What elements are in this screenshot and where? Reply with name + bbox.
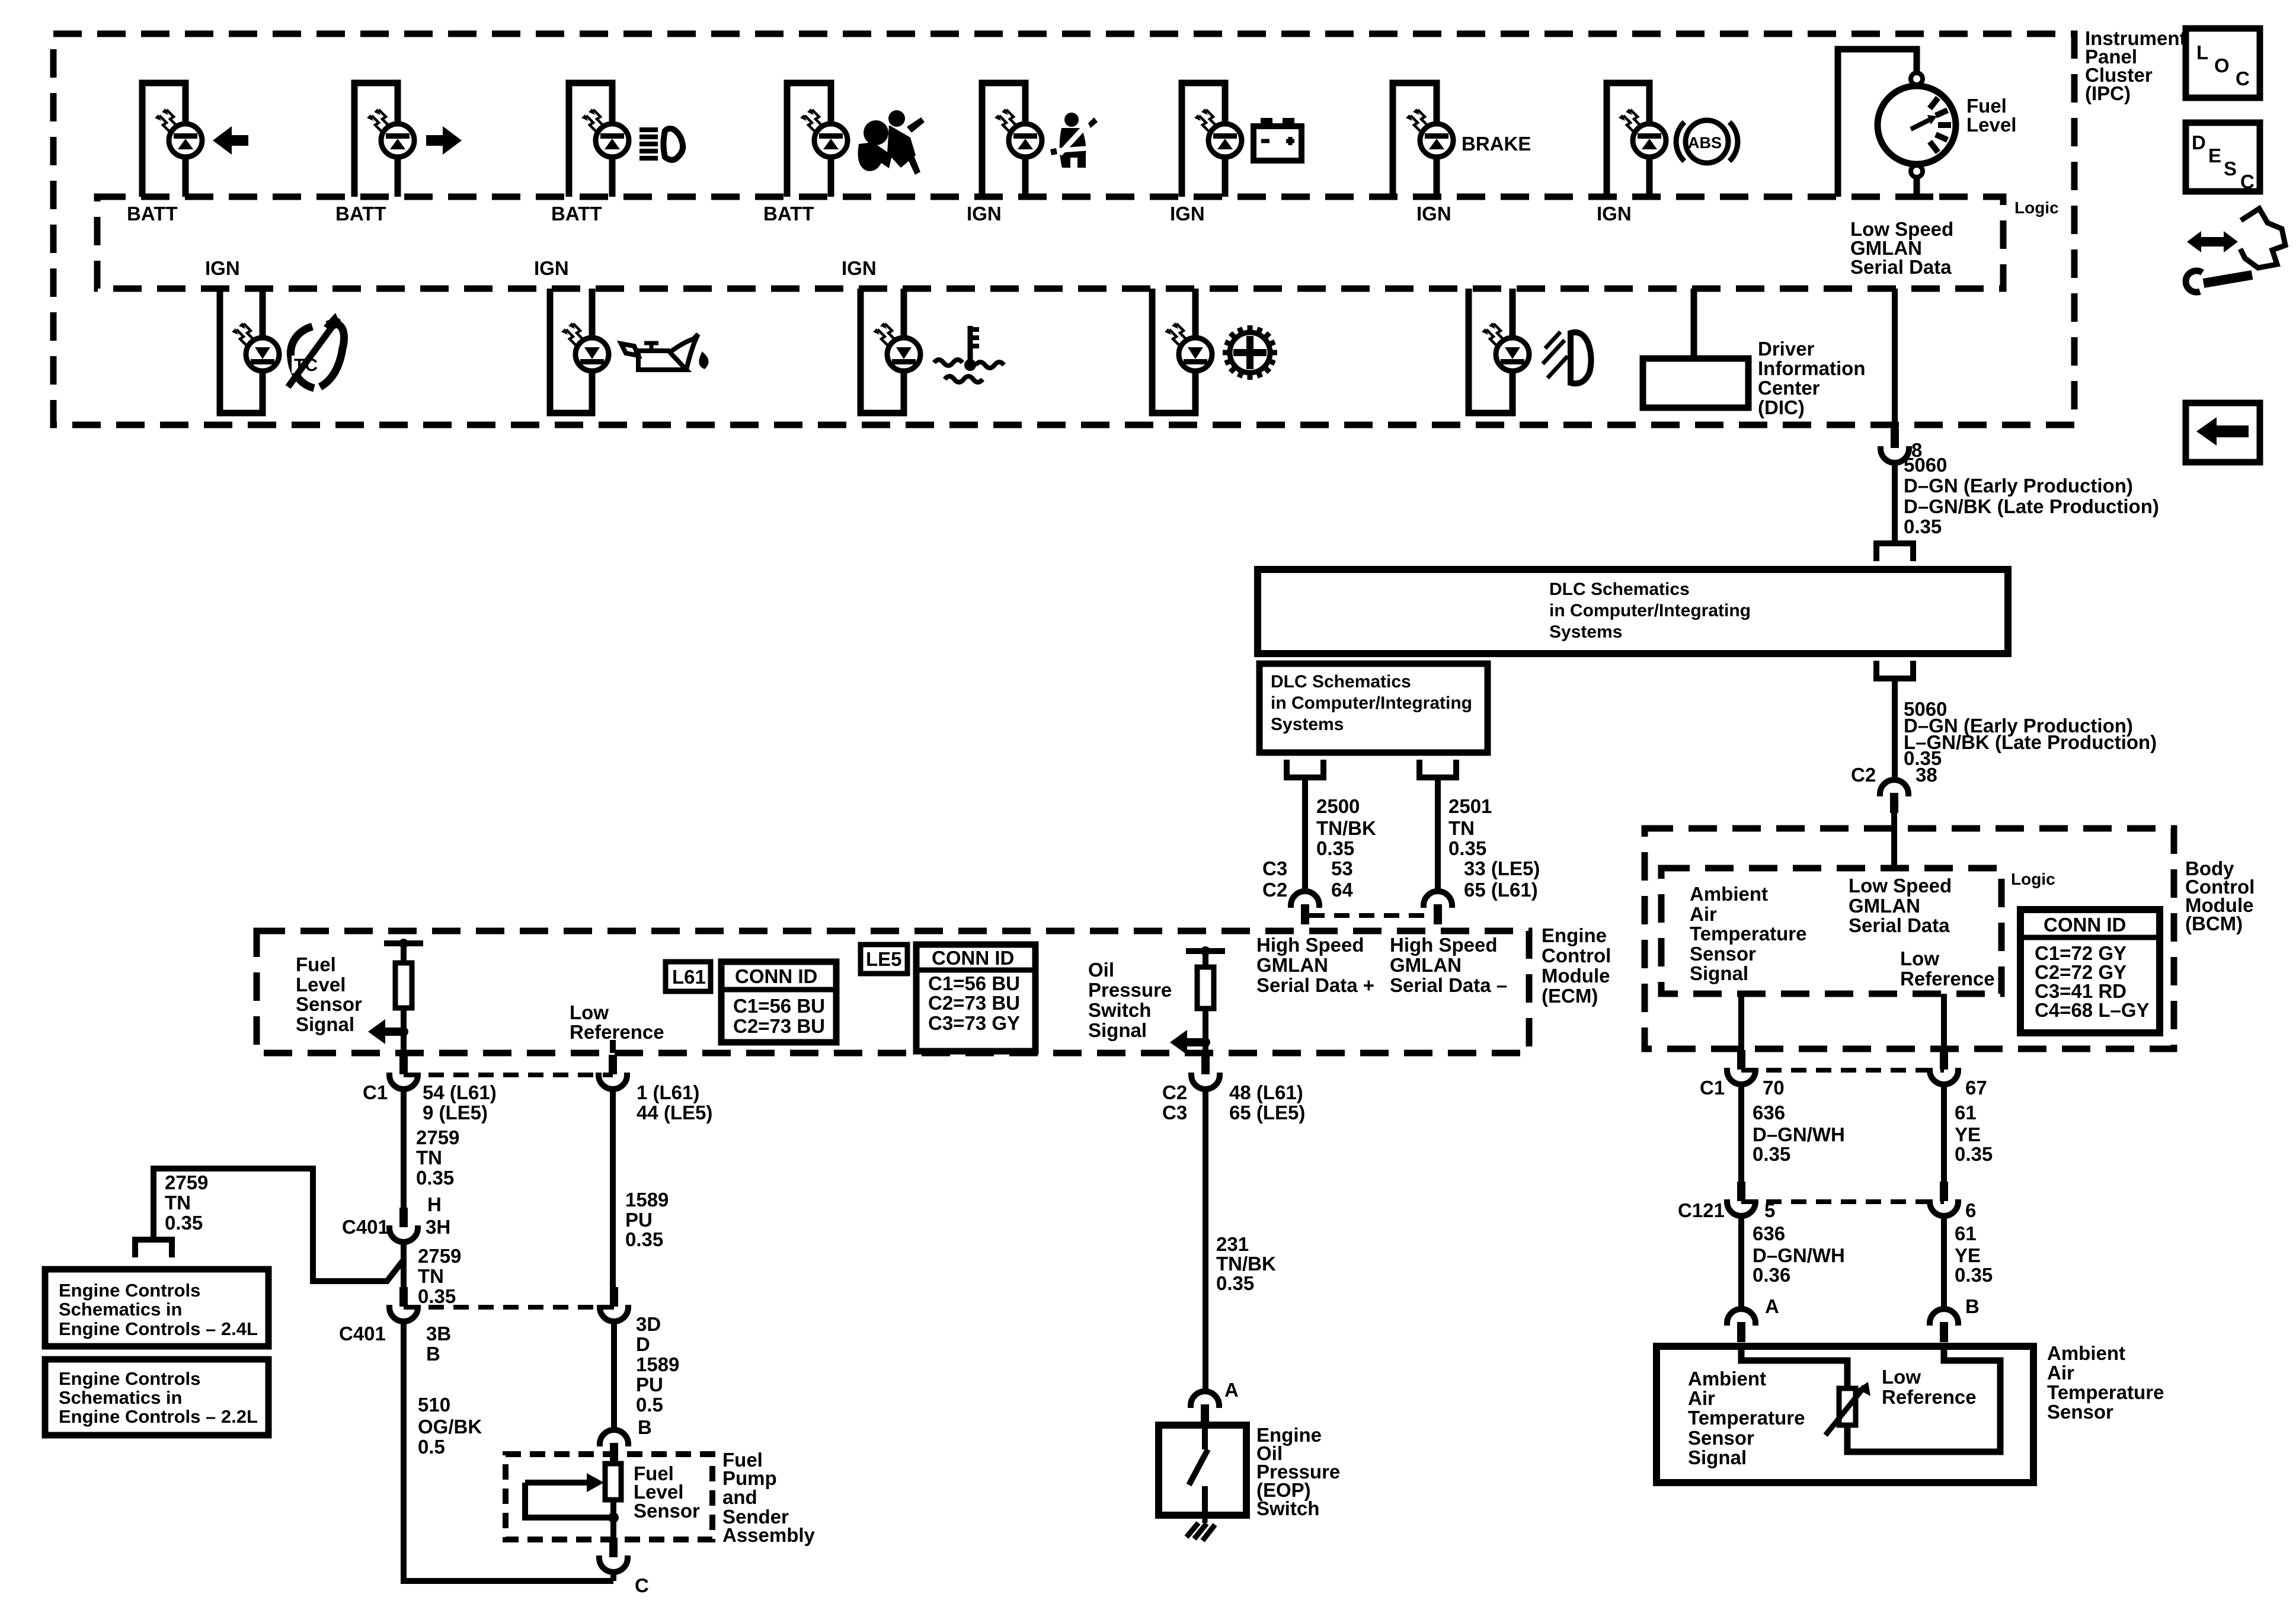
svg-text:C: C [635,1574,649,1596]
svg-text:44 (LE5): 44 (LE5) [637,1102,712,1124]
svg-text:B: B [1965,1295,1980,1317]
svg-text:LE5: LE5 [866,948,902,970]
bracket below DLC box [1876,661,1913,678]
svg-text:(BCM): (BCM) [2185,913,2243,934]
Driver Information Center (DIC) box [1643,359,1748,408]
svg-text:Pressure: Pressure [1088,979,1172,1001]
back arrow icon box [2186,403,2260,462]
svg-text:TN: TN [1448,817,1475,839]
IPC label [2085,27,2186,104]
svg-text:GMLAN: GMLAN [1256,954,1328,976]
svg-text:D–GN/WH: D–GN/WH [1753,1124,1845,1145]
bracket to DLC box [1876,543,1913,561]
svg-text:2759: 2759 [416,1126,459,1148]
svg-text:1 (L61): 1 (L61) [637,1081,699,1103]
wire C to ground run [610,1571,616,1581]
svg-text:IGN: IGN [1597,203,1632,225]
svg-text:Schematics in: Schematics in [59,1387,182,1408]
svg-text:A: A [1224,1379,1239,1401]
svg-text:CONN ID: CONN ID [735,965,817,987]
svg-text:DLC Schematics: DLC Schematics [1549,580,1690,599]
svg-text:0.35: 0.35 [1316,837,1354,859]
svg-text:C2: C2 [1262,879,1287,901]
Engine Oil Pressure (EOP) Switch box [1159,1425,1246,1515]
Fuel Level label [1966,95,2016,136]
svg-text:in Computer/Integrating: in Computer/Integrating [1549,601,1751,620]
svg-text:Serial Data +: Serial Data + [1256,974,1374,996]
svg-text:DLC Schematics: DLC Schematics [1271,672,1411,692]
high beam indicator lamp [569,83,629,197]
wire into BCM [1891,812,1897,868]
LE5 tag box [861,945,907,974]
svg-text:TN: TN [418,1265,444,1287]
svg-text:C4=68 L–GY: C4=68 L–GY [2035,999,2150,1021]
diagnostic wrench icon [2186,209,2285,292]
svg-text:Sensor: Sensor [634,1500,700,1522]
svg-text:C401: C401 [342,1216,389,1238]
svg-text:BATT: BATT [551,203,602,225]
Fuel Level Sensor label [634,1462,700,1522]
Ambient Air Temperature Sensor Signal label (BCM) [1690,883,1806,984]
CONN ID table (BCM) [2020,910,2160,1033]
svg-text:Ambient: Ambient [2047,1342,2125,1364]
svg-text:IGN: IGN [205,257,240,279]
svg-text:BATT: BATT [335,203,386,225]
svg-text:TN: TN [165,1192,191,1214]
airbag icon [858,110,925,175]
bracket to Engine Controls 2.4L box [135,1240,172,1257]
connector C121 6 [1930,1182,1958,1216]
svg-text:Serial Data –: Serial Data – [1390,974,1507,996]
svg-text:Reference: Reference [1882,1386,1977,1408]
Ambient Air Temperature Sensor Signal label (sensor) [1688,1368,1805,1468]
svg-text:510: 510 [418,1394,450,1416]
DIC label [1758,338,1865,418]
svg-text:Engine: Engine [1542,924,1607,946]
oil can icon [621,334,706,370]
svg-text:C2=73 BU: C2=73 BU [733,1015,825,1037]
svg-text:PU: PU [636,1374,663,1395]
svg-text:OG/BK: OG/BK [418,1416,482,1438]
airbag indicator lamp [787,83,848,197]
svg-text:and: and [722,1486,757,1508]
right arrow icon [426,126,462,155]
svg-text:6: 6 [1965,1199,1976,1221]
wire 636 D-GN/WH lower [1738,1216,1744,1310]
Fuel Level Sensor potentiometer [525,1454,621,1539]
svg-text:IGN: IGN [967,203,1002,225]
svg-text:5060: 5060 [1904,454,1947,476]
BCM label [2185,857,2255,934]
svg-text:33 (LE5): 33 (LE5) [1464,857,1540,879]
svg-text:C121: C121 [1678,1199,1725,1221]
EOP switch contacts [1189,1425,1208,1515]
svg-text:Low: Low [1900,948,1939,969]
brake indicator lamp [1393,83,1453,197]
IPC Logic inner dashed box [97,197,2003,289]
svg-text:Signal: Signal [1088,1019,1147,1041]
connector pin 8 [1881,428,1909,463]
svg-text:BATT: BATT [763,203,814,225]
svg-text:Center: Center [1758,377,1820,399]
connector C401 3H [389,1208,418,1242]
svg-text:1589: 1589 [636,1353,679,1375]
wire 5060 D-GN [1892,463,1898,542]
svg-text:Engine Controls – 2.4L: Engine Controls – 2.4L [59,1318,258,1339]
LE5 CONN ID table [916,945,1035,1051]
svg-text:A: A [1765,1295,1779,1317]
svg-text:Low: Low [570,1001,609,1023]
Low Reference label (sensor) [1882,1366,1977,1408]
svg-text:Systems: Systems [1549,622,1622,642]
svg-text:ABS: ABS [1688,134,1722,152]
bracket below small DLC box (left) [1287,760,1323,777]
charge indicator lamp [1182,83,1242,197]
connector C fuel pump [599,1538,628,1572]
Oil Pressure Switch Signal label [1088,959,1172,1041]
connector C2/C3 oil pressure [1191,1055,1220,1089]
connector C401 3B [389,1287,418,1321]
svg-text:2501: 2501 [1448,795,1492,817]
svg-text:70: 70 [1763,1077,1785,1099]
svg-text:PU: PU [625,1209,653,1231]
fuel level signal circuit in ECM [368,939,423,1053]
High Speed GMLAN Serial Data - label [1390,934,1507,996]
svg-text:0.35: 0.35 [165,1212,203,1234]
seat belt indicator lamp [982,83,1042,197]
svg-text:C3: C3 [1262,857,1287,879]
ABS icon [1676,120,1738,163]
svg-text:CONN ID: CONN ID [932,947,1014,969]
svg-text:Logic: Logic [2014,199,2059,217]
svg-text:2500: 2500 [1316,795,1360,817]
svg-text:Driver: Driver [1758,338,1815,360]
svg-text:Low: Low [1882,1366,1921,1388]
Ambient Air Temperature Sensor label [2047,1342,2164,1423]
bracket below small DLC box (right) [1419,760,1456,777]
seat belt icon [1050,113,1098,168]
svg-text:61: 61 [1955,1222,1977,1244]
svg-text:1589: 1589 [625,1189,669,1211]
wire 61 YE lower [1941,1216,1947,1310]
svg-text:L61: L61 [672,966,706,988]
svg-text:C1=56 BU: C1=56 BU [928,972,1020,994]
svg-text:54 (L61): 54 (L61) [423,1081,497,1103]
DLC Schematics reference box (large) [1258,569,2008,654]
connector line (ECM bottom) [404,1073,613,1077]
svg-text:67: 67 [1965,1077,1987,1099]
transmission warning indicator lamp [1152,289,1212,413]
svg-text:Systems: Systems [1271,715,1344,734]
svg-text:Low Speed: Low Speed [1849,875,1952,897]
svg-text:Serial Data: Serial Data [1849,914,1950,936]
DLC Schematics reference box (small) [1259,664,1488,753]
wire 636 D-GN/WH [1738,1084,1744,1183]
svg-text:Serial Data: Serial Data [1850,256,1952,278]
svg-text:(DIC): (DIC) [1758,396,1805,418]
LOC icon box [2186,28,2260,98]
svg-text:3H: 3H [426,1216,450,1238]
svg-text:Switch: Switch [1256,1497,1319,1519]
svg-text:Oil: Oil [1088,959,1114,981]
wire 2501 TN [1435,777,1441,892]
svg-text:Reference: Reference [1900,968,1995,990]
svg-text:B: B [426,1343,440,1365]
svg-text:3B: 3B [426,1323,451,1345]
svg-text:L: L [2196,41,2208,63]
svg-text:IGN: IGN [1416,203,1451,225]
svg-text:48 (L61): 48 (L61) [1229,1081,1303,1103]
svg-text:0.35: 0.35 [1955,1264,1993,1286]
svg-text:0.5: 0.5 [636,1394,663,1416]
svg-text:Switch: Switch [1088,999,1151,1021]
svg-text:Engine Controls: Engine Controls [59,1280,200,1301]
Ambient Air Temperature Sensor box [1657,1346,2033,1483]
connector C1 54 [389,1055,418,1089]
svg-text:231: 231 [1216,1233,1249,1255]
ABS indicator lamp [1607,83,1666,197]
traction control indicator lamp [220,289,279,413]
svg-text:High Speed: High Speed [1390,934,1498,956]
right turn indicator lamp [354,83,414,197]
L61 CONN ID table [721,962,836,1042]
Engine Controls 2.4L reference box [45,1269,268,1346]
connector line C401 [404,1305,614,1310]
Low Reference label (BCM) [1900,948,1995,990]
svg-text:Sensor: Sensor [1690,943,1756,965]
svg-text:636: 636 [1753,1222,1785,1244]
Instrument Panel Cluster (IPC) dashed box [53,34,2074,425]
svg-text:D: D [636,1333,650,1355]
wire to C401 3B [401,1260,407,1288]
wire 2759 TN branch to 2.4L reference [154,1169,404,1281]
svg-text:Engine Controls: Engine Controls [59,1368,200,1389]
svg-text:Assembly: Assembly [722,1524,816,1546]
ambient sensor internal wiring + thermistor [1741,1346,2000,1452]
transmission gear icon [1223,325,1277,380]
fog lamp icon [1543,332,1591,383]
L61 tag box [666,962,711,991]
svg-text:TN/BK: TN/BK [1216,1253,1276,1275]
svg-text:C1=56 BU: C1=56 BU [733,995,825,1017]
svg-text:BRAKE: BRAKE [1462,133,1531,155]
Fuel Pump and Sender Assembly label [722,1449,816,1546]
svg-text:(ECM): (ECM) [1542,985,1598,1007]
connector C121 5 [1727,1182,1755,1216]
svg-text:Ambient: Ambient [1688,1368,1766,1390]
svg-text:Air: Air [1688,1387,1715,1409]
svg-text:D–GN (Early Production): D–GN (Early Production) [1904,475,2133,497]
wire ambient signal (BCM) [1738,994,1744,1050]
wire 2759 TN [401,1089,407,1209]
svg-text:Ambient: Ambient [1690,883,1768,905]
oil pressure switch signal circuit in ECM [1170,946,1225,1055]
svg-text:D: D [2192,132,2206,153]
wire low speed GMLAN serial data [1892,289,1898,428]
svg-text:IGN: IGN [842,257,877,279]
svg-text:5: 5 [1764,1199,1775,1221]
coolant temperature indicator lamp [861,289,920,413]
svg-text:C3: C3 [1162,1102,1187,1124]
svg-text:0.36: 0.36 [1753,1264,1790,1286]
Low Speed GMLAN Serial Data label (BCM) [1849,875,1952,936]
svg-text:C: C [2240,171,2255,193]
svg-text:0.35: 0.35 [1904,516,1942,537]
connector C1 67 [1930,1050,1958,1084]
oil pressure indicator lamp [550,289,609,413]
svg-text:Temperature: Temperature [1690,923,1806,945]
svg-text:Reference: Reference [570,1021,664,1043]
svg-text:C1: C1 [363,1081,388,1103]
svg-text:Air: Air [1690,903,1717,925]
svg-text:YE: YE [1955,1124,1981,1145]
Engine Control Module (ECM) dashed box [257,931,1529,1053]
svg-text:TN: TN [416,1147,442,1169]
ECM label [1542,924,1611,1007]
ground chassis symbol [1187,1515,1215,1541]
svg-text:C2: C2 [1162,1081,1187,1103]
svg-text:Fuel: Fuel [296,953,336,975]
connector C1 70 [1727,1050,1755,1084]
svg-text:C2=73 BU: C2=73 BU [928,992,1020,1014]
wire 231 TN/BK [1203,1089,1208,1392]
svg-text:0.35: 0.35 [418,1285,456,1307]
wire 510 OG/BK [404,1321,613,1581]
connector B fuel sender [600,1430,628,1463]
wire low reference (BCM) [1941,994,1947,1050]
svg-text:CONN ID: CONN ID [2044,914,2126,936]
svg-text:Level: Level [296,974,346,996]
svg-text:GMLAN: GMLAN [1390,954,1462,976]
svg-text:64: 64 [1331,879,1353,901]
svg-text:Signal: Signal [1690,962,1748,984]
BCM Logic inner dashed box [1661,868,2001,994]
svg-text:0.35: 0.35 [1753,1143,1790,1165]
svg-text:65 (L61): 65 (L61) [1464,879,1538,901]
svg-text:0.5: 0.5 [418,1436,445,1458]
connector C401 3D [600,1287,628,1321]
Engine Controls 2.2L reference box [45,1359,268,1435]
wire 5060 D-GN to BCM [1892,678,1898,780]
wire fuel gauge bottom [1900,177,1933,197]
battery icon [1253,118,1302,161]
EOP label [1256,1424,1340,1519]
left turn indicator lamp [142,83,202,197]
low reference stub [610,1040,616,1053]
svg-text:2759: 2759 [165,1172,208,1193]
DESC icon box [2186,123,2260,193]
fuel level gauge [1878,73,1956,177]
svg-text:C: C [2236,68,2250,89]
wire DIC to logic box [1691,289,1697,359]
connector line C1 (BCM) [1741,1068,1944,1073]
svg-text:636: 636 [1753,1102,1785,1124]
Low Reference label (ECM) [570,1001,664,1043]
Body Control Module (BCM) dashed box [1645,828,2174,1049]
svg-text:Signal: Signal [296,1013,354,1035]
svg-text:0.35: 0.35 [1216,1272,1254,1294]
svg-text:3D: 3D [636,1313,661,1335]
Fuel Pump and Sender Assembly dashed box [506,1454,712,1539]
svg-text:B: B [638,1416,652,1438]
svg-text:C3=73 GY: C3=73 GY [928,1012,1020,1034]
connector A EOP switch [1191,1391,1219,1425]
wire to fuel level sensor [611,1321,617,1430]
svg-text:61: 61 [1955,1102,1977,1124]
connector 1/44 low reference [599,1055,627,1089]
svg-text:(IPC): (IPC) [2085,82,2131,104]
High Speed GMLAN Serial Data + label [1256,934,1374,996]
svg-text:YE: YE [1955,1244,1981,1266]
svg-text:0.35: 0.35 [1448,837,1486,859]
svg-text:in Computer/Integrating: in Computer/Integrating [1271,693,1472,713]
svg-text:Engine Controls – 2.2L: Engine Controls – 2.2L [59,1406,258,1427]
connector A ambient sensor [1727,1309,1755,1342]
svg-text:Temperature: Temperature [2047,1381,2164,1403]
Fuel Level Sensor Signal label [296,953,362,1035]
svg-text:Logic: Logic [2011,870,2055,888]
left arrow icon [213,126,248,155]
connector B ambient sensor [1930,1309,1958,1342]
connector line C121 [1741,1199,1944,1204]
svg-text:Sensor: Sensor [296,993,362,1015]
svg-text:38: 38 [1916,764,1937,786]
svg-text:C401: C401 [339,1323,386,1345]
svg-text:9 (LE5): 9 (LE5) [423,1102,488,1124]
svg-text:H: H [427,1193,442,1215]
svg-text:D–GN/BK (Late Production): D–GN/BK (Late Production) [1904,495,2159,517]
svg-text:S: S [2224,158,2237,180]
svg-text:High Speed: High Speed [1256,934,1364,956]
svg-text:0.35: 0.35 [416,1167,454,1189]
svg-text:E: E [2208,145,2221,167]
wire fuel gauge top feed [1838,49,1917,197]
svg-text:BATT: BATT [127,203,178,225]
svg-text:65 (LE5): 65 (LE5) [1229,1102,1305,1124]
svg-text:2759: 2759 [418,1245,461,1267]
svg-text:Air: Air [2047,1362,2074,1384]
wire 2500 TN/BK [1302,777,1308,892]
svg-text:Schematics in: Schematics in [59,1299,182,1320]
high beam icon [639,129,683,160]
svg-text:C2: C2 [1851,764,1876,786]
svg-text:0.35: 0.35 [1955,1143,1993,1165]
Low Speed GMLAN Serial Data (IPC) [1850,218,1953,278]
svg-text:TN/BK: TN/BK [1316,817,1376,839]
svg-text:Sensor: Sensor [1688,1427,1754,1449]
svg-text:0.35: 0.35 [625,1228,663,1250]
svg-text:53: 53 [1331,857,1353,879]
svg-text:Sensor: Sensor [2047,1401,2113,1423]
svg-text:IGN: IGN [534,257,569,279]
svg-text:Level: Level [1966,114,2016,136]
svg-text:Module: Module [1542,965,1610,987]
wire 61 YE [1941,1084,1947,1183]
svg-text:C1: C1 [1700,1077,1725,1099]
svg-text:IGN: IGN [1170,203,1205,225]
wire 1589 PU [610,1089,616,1288]
svg-text:Control: Control [1542,945,1611,966]
fog lamp indicator lamp [1469,289,1529,413]
svg-text:O: O [2214,55,2230,76]
connector line (ECM top) [1309,913,1434,918]
svg-text:GMLAN: GMLAN [1849,895,1920,917]
svg-text:Temperature: Temperature [1688,1407,1805,1429]
coolant temperature icon [934,326,1004,382]
svg-text:Information: Information [1758,357,1865,379]
traction control TC icon [288,313,344,388]
svg-text:Signal: Signal [1688,1446,1747,1468]
